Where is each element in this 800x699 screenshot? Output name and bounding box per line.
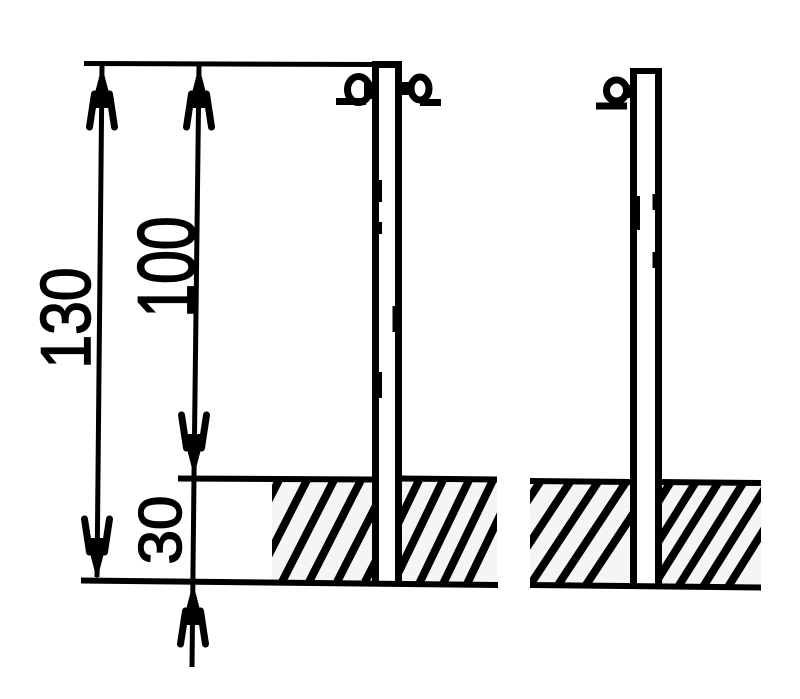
svg-text:30: 30 bbox=[127, 496, 194, 565]
ground surface line (left of post 1) bbox=[178, 479, 372, 480]
ground surface line (left of post 2) bbox=[530, 481, 634, 482]
hatch block C (ground section left of post 2) bbox=[472, 479, 656, 585]
bottom base line (left figure) bbox=[81, 581, 498, 586]
bottom base line (right figure) bbox=[530, 585, 761, 588]
svg-text:130: 130 bbox=[26, 267, 105, 368]
hatch block B (ground section right of post 1) bbox=[369, 478, 518, 584]
top extension line bbox=[84, 64, 376, 65]
scan smudge marks on post 1 bbox=[379, 180, 396, 398]
ground surface line (right of post 2) bbox=[658, 482, 761, 483]
dimension line 130 bbox=[85, 66, 115, 580]
hatch block A (ground section left of post 1) bbox=[227, 478, 418, 582]
eye hook right of post 1 bbox=[400, 77, 441, 103]
scan smudge marks on post 2 bbox=[637, 194, 656, 268]
post 2 (right pole) bbox=[630, 68, 662, 586]
eye hook left of post 2 bbox=[596, 80, 637, 106]
post 1 (left pole) bbox=[372, 61, 402, 583]
eye hook left of post 1 bbox=[336, 77, 376, 103]
svg-text:100: 100 bbox=[122, 216, 213, 317]
dimension line 100 bbox=[182, 66, 212, 476]
hatch block D (ground section right of post 2) bbox=[605, 480, 795, 587]
dimension pointer 30 (below base line) bbox=[181, 476, 206, 667]
ground surface line (right of post 1) bbox=[400, 479, 497, 480]
